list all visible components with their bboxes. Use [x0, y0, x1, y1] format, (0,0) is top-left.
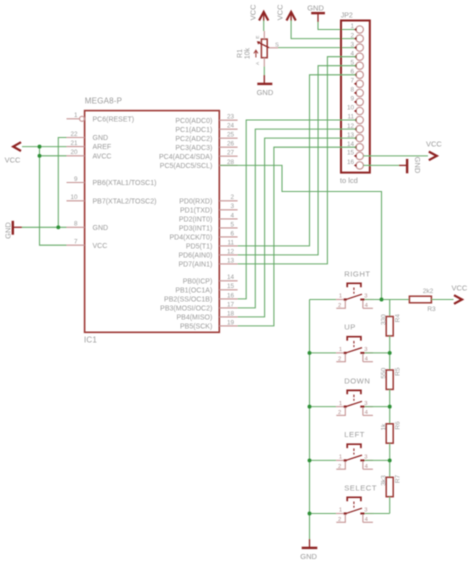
- wire PC5/ADC5 to button ladder node: [220, 165, 382, 299]
- resistor R3 2k2: [409, 288, 436, 313]
- wire VCC to JP2 pin 2: [291, 21, 356, 39]
- svg-text:19: 19: [227, 319, 235, 326]
- wire R5 top: [389, 353, 391, 370]
- supply VCC arrow (left, at AREF): [5, 142, 21, 164]
- resistor R7 3k3: [380, 474, 401, 496]
- svg-text:AVCC: AVCC: [93, 153, 112, 160]
- svg-text:550: 550: [380, 367, 387, 378]
- IC1 pin 12 PD6(AIN0): [178, 248, 237, 259]
- svg-text:LEFT: LEFT: [344, 430, 365, 439]
- JP2 pin 16: [347, 159, 363, 169]
- svg-text:14: 14: [227, 274, 235, 281]
- R1 adjustment arrow: [254, 50, 258, 57]
- IC1 pin 18 PB4(MISO): [177, 310, 238, 321]
- svg-text:3: 3: [230, 203, 234, 210]
- IC1 pin 11 PD5(T1): [186, 239, 238, 250]
- wire R4 bottom: [389, 336, 391, 353]
- svg-text:R6: R6: [395, 421, 402, 430]
- supply VCC arrow (top, for R1): [248, 4, 268, 21]
- switch UP: [336, 323, 373, 363]
- svg-text:21: 21: [70, 140, 78, 147]
- svg-text:1: 1: [339, 294, 342, 300]
- connector JP2 body: [341, 21, 370, 173]
- svg-text:2: 2: [338, 303, 341, 309]
- wire left rail to LEFT: [310, 459, 337, 461]
- svg-text:11: 11: [227, 239, 234, 246]
- svg-text:PB1(OC1A): PB1(OC1A): [175, 287, 212, 294]
- wire RIGHT to node/R3: [365, 299, 410, 301]
- R1 wiper arrow pin S: [257, 41, 279, 48]
- JP2 pin 12: [347, 123, 363, 133]
- svg-text:JP2: JP2: [341, 13, 353, 20]
- svg-text:2: 2: [338, 356, 341, 362]
- wire left button rail: [309, 300, 311, 540]
- svg-text:R1: R1: [237, 49, 244, 58]
- svg-text:PB4(MISO): PB4(MISO): [177, 315, 213, 322]
- svg-text:3: 3: [364, 508, 367, 514]
- svg-text:17: 17: [227, 301, 235, 308]
- svg-text:DOWN: DOWN: [344, 376, 370, 385]
- svg-text:8: 8: [350, 87, 354, 94]
- svg-text:RIGHT: RIGHT: [344, 269, 370, 278]
- svg-text:UP: UP: [344, 323, 356, 332]
- svg-text:7: 7: [350, 78, 354, 85]
- JP2 pin 5: [350, 59, 363, 69]
- JP2 pin 13: [347, 132, 363, 142]
- junction left rail LEFT: [308, 458, 312, 462]
- svg-text:3k3: 3k3: [380, 475, 387, 486]
- svg-text:PB2(SS/OC1B): PB2(SS/OC1B): [164, 297, 212, 304]
- svg-text:8: 8: [74, 221, 78, 228]
- supply VCC arrow (right, R3): [452, 283, 468, 304]
- junction ladder UP: [388, 351, 392, 355]
- JP2 pin 7: [350, 78, 363, 88]
- svg-text:20: 20: [70, 149, 78, 156]
- svg-text:12: 12: [227, 248, 235, 255]
- IC1 pin 25 PC2(ADC2): [175, 132, 237, 143]
- wire R6 bottom: [389, 443, 391, 460]
- svg-text:2: 2: [338, 517, 341, 523]
- svg-text:PD2(INT0): PD2(INT0): [179, 217, 212, 224]
- svg-text:VCC: VCC: [426, 140, 442, 149]
- switch DOWN: [336, 376, 373, 416]
- wire R7 bottom: [389, 497, 391, 514]
- junction left rail UP: [308, 351, 312, 355]
- wire JP2-6 to PD5: [238, 75, 357, 246]
- ground symbol (below R1): [257, 75, 274, 97]
- svg-text:PD7(AIN1): PD7(AIN1): [178, 262, 212, 269]
- junction GND rail at pin8 row: [56, 225, 60, 229]
- svg-text:MEGA8-P: MEGA8-P: [85, 96, 122, 105]
- wire JP2-12 to PB3: [238, 129, 357, 308]
- junction ladder DOWN: [388, 405, 392, 409]
- svg-text:PC5(ADC5/SCL): PC5(ADC5/SCL): [160, 163, 213, 170]
- wire DOWN to ladder rail: [365, 406, 390, 408]
- IC1 pin 26 PC3(ADC3): [175, 141, 237, 152]
- svg-text:7: 7: [74, 239, 78, 246]
- junction ladder LEFT: [388, 458, 392, 462]
- wire R6 top: [389, 407, 391, 424]
- wire AREF to VCC arrow: [22, 146, 67, 148]
- wire JP2-11 to PB2: [238, 120, 357, 299]
- svg-text:SELECT: SELECT: [344, 483, 377, 492]
- svg-text:PC6(RESET): PC6(RESET): [93, 116, 135, 123]
- wire pin22 GND down: [58, 138, 66, 228]
- svg-text:16: 16: [227, 292, 235, 299]
- svg-text:10k: 10k: [244, 47, 251, 59]
- wire SELECT to ladder rail: [365, 513, 390, 515]
- svg-text:5: 5: [230, 221, 234, 228]
- wire AVCC to vertical: [40, 155, 67, 157]
- wire R1 wiper to JP2 pin 3: [278, 47, 356, 49]
- svg-text:VCC: VCC: [248, 4, 257, 20]
- ground symbol (right of JP2): [399, 157, 422, 174]
- svg-text:15: 15: [347, 150, 355, 157]
- svg-text:GND: GND: [300, 552, 317, 561]
- svg-text:18: 18: [227, 310, 235, 317]
- IC1 pin 16 PB2(SS/OC1B): [164, 292, 238, 303]
- svg-text:PC3(ADC3): PC3(ADC3): [175, 145, 212, 152]
- svg-text:PB3(MOSI/OC2): PB3(MOSI/OC2): [160, 306, 212, 313]
- svg-text:PC1(ADC1): PC1(ADC1): [175, 127, 212, 134]
- ground symbol (bottom): [300, 539, 317, 561]
- svg-text:PB6(XTAL1/TOSC1): PB6(XTAL1/TOSC1): [93, 180, 157, 187]
- junction left rail SELECT: [308, 512, 312, 516]
- svg-text:PD1(TXD): PD1(TXD): [180, 207, 212, 214]
- svg-text:PD5(T1): PD5(T1): [186, 244, 212, 251]
- wire JP2-4 to PD7: [238, 57, 357, 264]
- switch LEFT: [336, 430, 373, 470]
- svg-text:1: 1: [74, 112, 78, 119]
- svg-text:1: 1: [339, 455, 342, 461]
- svg-text:1: 1: [339, 508, 342, 514]
- supply VCC arrow (right of JP2): [426, 140, 442, 161]
- IC1 pin 28 PC5(ADC5/SCL): [160, 159, 238, 170]
- IC1 pin 14 PB0(ICP): [183, 274, 238, 285]
- trimpot R1 10k body: [261, 39, 267, 58]
- svg-text:10: 10: [347, 105, 355, 112]
- wire LEFT to ladder rail: [365, 459, 390, 461]
- wire R4 top: [389, 300, 391, 317]
- svg-text:to lcd: to lcd: [340, 176, 358, 185]
- IC1 pin 22 GND: [67, 131, 109, 142]
- svg-text:10: 10: [70, 194, 78, 201]
- resistor R6 1k: [380, 421, 401, 443]
- svg-text:330: 330: [380, 314, 387, 325]
- JP2 pin 9: [350, 96, 363, 106]
- svg-text:3: 3: [364, 401, 367, 407]
- svg-text:24: 24: [227, 123, 235, 130]
- svg-text:PC2(ADC2): PC2(ADC2): [175, 136, 212, 143]
- JP2 pin 15: [347, 150, 363, 160]
- svg-text:GND: GND: [93, 225, 109, 232]
- wire JP2-5 to PD6: [238, 66, 357, 255]
- ground symbol (top, JP2 pin1): [307, 4, 325, 22]
- svg-text:R7: R7: [395, 474, 402, 483]
- IC1 pin 15 PB1(OC1A): [175, 283, 237, 294]
- wire R3 to VCC: [431, 299, 453, 301]
- wire vertical VCC rail to pin7: [40, 147, 67, 246]
- svg-text:15: 15: [227, 283, 235, 290]
- junction at AREF/VCC: [38, 145, 42, 149]
- wire left rail to RIGHT: [310, 299, 337, 301]
- svg-text:VCC: VCC: [452, 283, 468, 292]
- svg-text:GND: GND: [3, 222, 12, 239]
- wire R7 top: [389, 460, 391, 477]
- svg-text:PD3(INT1): PD3(INT1): [179, 226, 212, 233]
- svg-text:1k: 1k: [380, 423, 387, 431]
- IC1 pin 4 PD2(INT0): [179, 212, 238, 223]
- svg-text:PD0(RXD): PD0(RXD): [179, 198, 212, 205]
- wire GND to JP2 pin 1: [318, 22, 356, 30]
- svg-text:VCC: VCC: [93, 243, 108, 250]
- IC1 pin 17 PB3(MOSI/OC2): [160, 301, 237, 312]
- IC1 pin 5 PD3(INT1): [179, 221, 238, 232]
- IC1 pin 23 PC0(ADC0): [175, 114, 237, 125]
- IC1 pin 20 AVCC: [67, 149, 112, 160]
- svg-text:GND: GND: [257, 88, 274, 97]
- svg-text:25: 25: [227, 132, 235, 139]
- svg-text:23: 23: [227, 114, 235, 121]
- svg-text:27: 27: [227, 150, 235, 157]
- svg-text:PB0(ICP): PB0(ICP): [183, 278, 213, 285]
- svg-text:AREF: AREF: [93, 144, 112, 151]
- svg-text:2: 2: [338, 410, 341, 416]
- svg-text:IC1: IC1: [84, 335, 97, 344]
- IC1 pin 19 PB5(SCK): [180, 319, 238, 330]
- svg-text:28: 28: [227, 159, 235, 166]
- svg-text:9: 9: [350, 96, 354, 103]
- svg-text:GND: GND: [307, 4, 324, 13]
- svg-text:PC0(ADC0): PC0(ADC0): [175, 118, 212, 125]
- svg-text:PD4(XCK/T0): PD4(XCK/T0): [170, 235, 213, 242]
- svg-text:GND: GND: [413, 157, 422, 174]
- svg-text:PD6(AIN0): PD6(AIN0): [178, 253, 212, 260]
- wire R1 bottom to GND: [263, 67, 265, 76]
- svg-text:VCC: VCC: [276, 4, 285, 20]
- svg-text:2: 2: [338, 464, 341, 470]
- wire VCC to R1 top: [263, 21, 265, 32]
- svg-text:13: 13: [227, 257, 235, 264]
- svg-text:PB5(SCK): PB5(SCK): [180, 324, 212, 331]
- IC1 pin 6 PD4(XCK/T0): [170, 230, 238, 241]
- IC IC1 MEGA8-P body: [85, 111, 220, 333]
- svg-text:3: 3: [364, 347, 367, 353]
- svg-text:E: E: [255, 36, 261, 39]
- switch RIGHT: [336, 269, 373, 309]
- IC1 pin 21 AREF: [67, 140, 112, 151]
- svg-text:3: 3: [364, 294, 367, 300]
- wire UP to ladder rail: [365, 352, 390, 354]
- junction left rail DOWN: [308, 405, 312, 409]
- svg-text:4: 4: [230, 212, 234, 219]
- JP2 pin 8: [350, 87, 363, 97]
- svg-text:22: 22: [70, 131, 78, 138]
- svg-text:1: 1: [350, 23, 354, 30]
- svg-text:16: 16: [347, 159, 355, 166]
- IC1 pin 13 PD7(AIN1): [178, 257, 237, 268]
- JP2 pin 4: [350, 50, 363, 60]
- IC1 pin 7 VCC: [67, 239, 108, 250]
- wire JP2-16 to GND: [363, 164, 399, 166]
- R1 pin A (bottom): [255, 58, 264, 67]
- IC1 pin 3 PD1(TXD): [180, 203, 238, 214]
- svg-text:3: 3: [350, 41, 354, 48]
- IC1 pin 10 PB7(XTAL2/TOSC2): [67, 194, 157, 205]
- JP2 pin 14: [347, 141, 363, 151]
- IC1 pin 9 PB6(XTAL1/TOSC1): [67, 176, 157, 187]
- svg-text:3: 3: [364, 455, 367, 461]
- IC1 pin 27 PC4(ADC4/SDA): [159, 150, 238, 161]
- svg-text:PB7(XTAL2/TOSC2): PB7(XTAL2/TOSC2): [93, 198, 157, 205]
- JP2 pin 1: [350, 23, 363, 33]
- JP2 pin 2: [350, 32, 363, 42]
- IC1 pin 24 PC1(ADC1): [175, 123, 237, 134]
- JP2 pin 11: [347, 114, 363, 124]
- switch SELECT: [336, 483, 377, 523]
- R1 pin E (top): [255, 31, 264, 39]
- IC1 pin 1 PC6(RESET): [67, 112, 135, 123]
- svg-text:2: 2: [350, 32, 354, 39]
- svg-text:VCC: VCC: [5, 156, 21, 165]
- svg-text:9: 9: [74, 176, 78, 183]
- svg-text:R3: R3: [427, 306, 436, 313]
- wire R5 bottom: [389, 389, 391, 406]
- wire left rail to UP: [310, 352, 337, 354]
- supply VCC arrow (top, JP2 pin2): [276, 4, 296, 21]
- svg-text:GND: GND: [93, 135, 109, 142]
- wire JP2-14 to PB5: [238, 147, 357, 326]
- wire left rail to DOWN: [310, 406, 337, 408]
- wire JP2-15 to VCC: [363, 155, 428, 157]
- svg-text:6: 6: [230, 230, 234, 237]
- wire GND to pin8: [22, 226, 67, 228]
- svg-text:1: 1: [339, 347, 342, 353]
- svg-text:2k2: 2k2: [423, 288, 434, 295]
- JP2 pin 3: [350, 41, 363, 51]
- resistor R4 330: [380, 314, 401, 336]
- JP2 pin 6: [350, 69, 363, 79]
- IC1 pin 2 PD0(RXD): [179, 194, 237, 205]
- svg-text:26: 26: [227, 141, 235, 148]
- junction RIGHT node with PC5 wire: [380, 298, 384, 302]
- junction at AVCC: [38, 154, 42, 158]
- svg-text:1: 1: [339, 401, 342, 407]
- resistor R5 550: [380, 367, 401, 389]
- svg-text:R5: R5: [395, 367, 402, 376]
- svg-text:R4: R4: [395, 314, 402, 323]
- JP2 pin 10: [347, 105, 363, 115]
- ground symbol (left, at pin8): [3, 221, 22, 239]
- wire left rail to SELECT: [310, 513, 337, 515]
- wire JP2-13 to PB4: [238, 138, 357, 317]
- IC1 pin 8 GND: [67, 221, 109, 232]
- svg-text:2: 2: [230, 194, 234, 201]
- svg-text:PC4(ADC4/SDA): PC4(ADC4/SDA): [159, 154, 212, 161]
